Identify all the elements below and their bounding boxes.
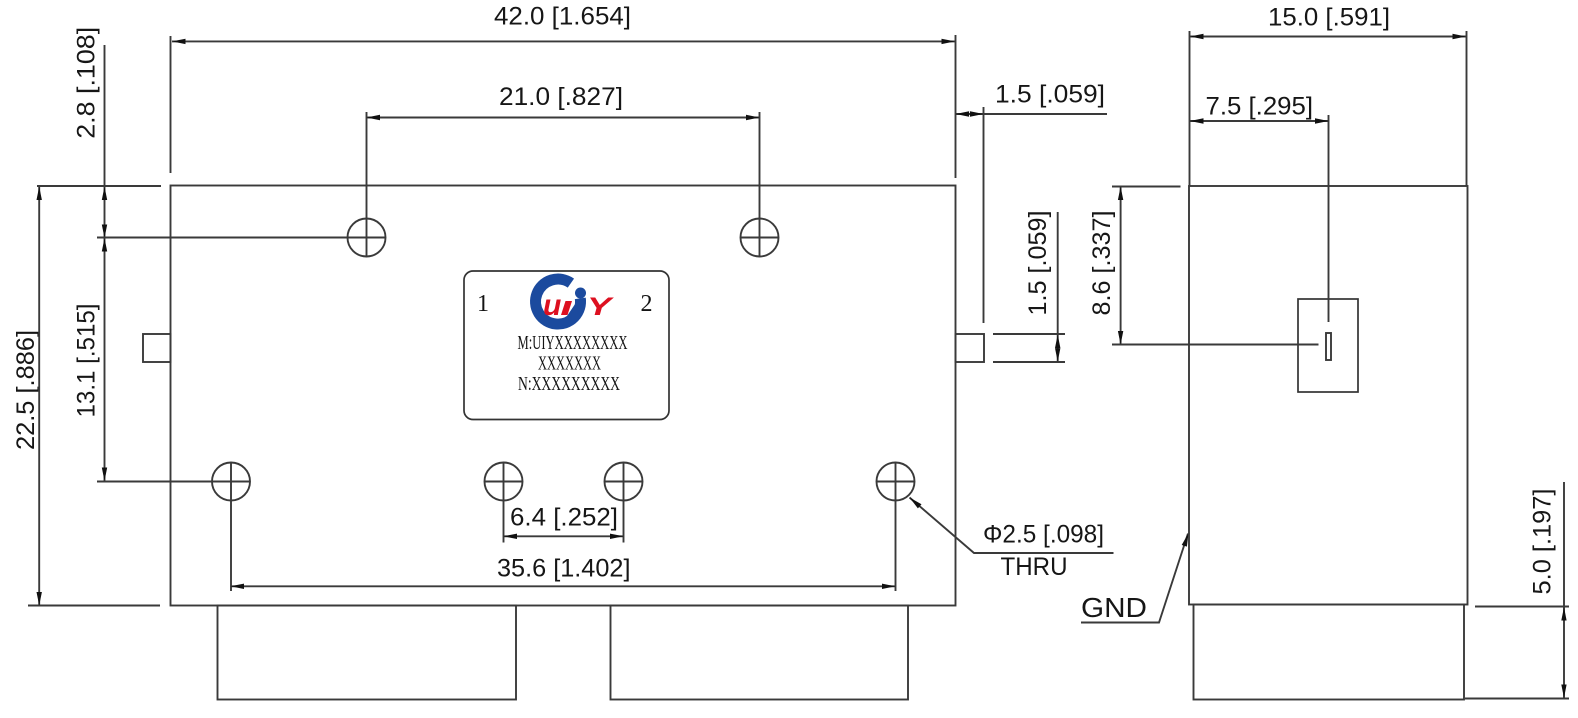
connector body [1298, 299, 1358, 392]
svg-text:15.0 [.591]: 15.0 [.591] [1268, 4, 1390, 32]
svg-text:GND: GND [1081, 592, 1147, 623]
hole H5 bottom-mid-right [604, 463, 643, 543]
svg-text:21.0 [.827]: 21.0 [.827] [499, 83, 623, 111]
svg-text:13.1 [.515]: 13.1 [.515] [73, 304, 101, 418]
hole H3 bottom-left [212, 462, 250, 591]
svg-text:1: 1 [477, 291, 489, 317]
svg-text:6.4 [.252]: 6.4 [.252] [510, 504, 618, 532]
mounting tab bottom-left [218, 606, 517, 700]
svg-text:22.5 [.886]: 22.5 [.886] [12, 330, 40, 450]
label plate [464, 271, 669, 420]
leader through hole H3 [97, 481, 251, 483]
svg-text:35.6 [1.402]: 35.6 [1.402] [497, 555, 631, 583]
svg-text:42.0 [1.654]: 42.0 [1.654] [494, 3, 631, 31]
connector center extension [1328, 115, 1330, 322]
mounting tab bottom-right [611, 606, 909, 700]
svg-text:7.5 [.295]: 7.5 [.295] [1206, 93, 1314, 121]
leader hole diameter [910, 498, 1114, 554]
svg-text:THRU: THRU [1001, 553, 1068, 581]
body outline (side view) [1189, 186, 1468, 605]
port tab right [956, 334, 985, 362]
port tab left [143, 334, 171, 362]
svg-text:2: 2 [641, 291, 653, 317]
svg-text:1.5 [.059]: 1.5 [.059] [995, 81, 1105, 109]
svg-text:2.8 [.108]: 2.8 [.108] [73, 27, 101, 139]
svg-text:1.5 [.059]: 1.5 [.059] [1024, 211, 1052, 316]
svg-text:Φ2.5 [.098]: Φ2.5 [.098] [983, 521, 1104, 549]
hole H6 bottom-right [876, 463, 915, 592]
svg-text:8.6 [.337]: 8.6 [.337] [1088, 211, 1116, 316]
body outline (top view) [171, 186, 956, 606]
svg-text:M:UIYXXXXXXXX: M:UIYXXXXXXXX [518, 332, 628, 354]
hole H1 top-left [347, 112, 386, 257]
UIY logo ring [536, 279, 581, 324]
svg-text:N:XXXXXXXXX: N:XXXXXXXXX [518, 373, 620, 395]
svg-text:Y: Y [587, 293, 615, 321]
leader through hole H1 [97, 237, 386, 239]
extension top-left [37, 185, 161, 187]
connector slot [1326, 333, 1331, 360]
svg-text:XXXXXXX: XXXXXXX [538, 353, 601, 375]
svg-text:u: u [543, 289, 561, 322]
base flange (side view) [1194, 605, 1465, 700]
svg-text:5.0 [.197]: 5.0 [.197] [1529, 489, 1557, 595]
hole H2 top-right [740, 112, 779, 257]
hole H4 bottom-mid-left [484, 463, 523, 543]
dimension line 2.8/13.1 [104, 45, 106, 481]
GND leader [1081, 534, 1188, 623]
